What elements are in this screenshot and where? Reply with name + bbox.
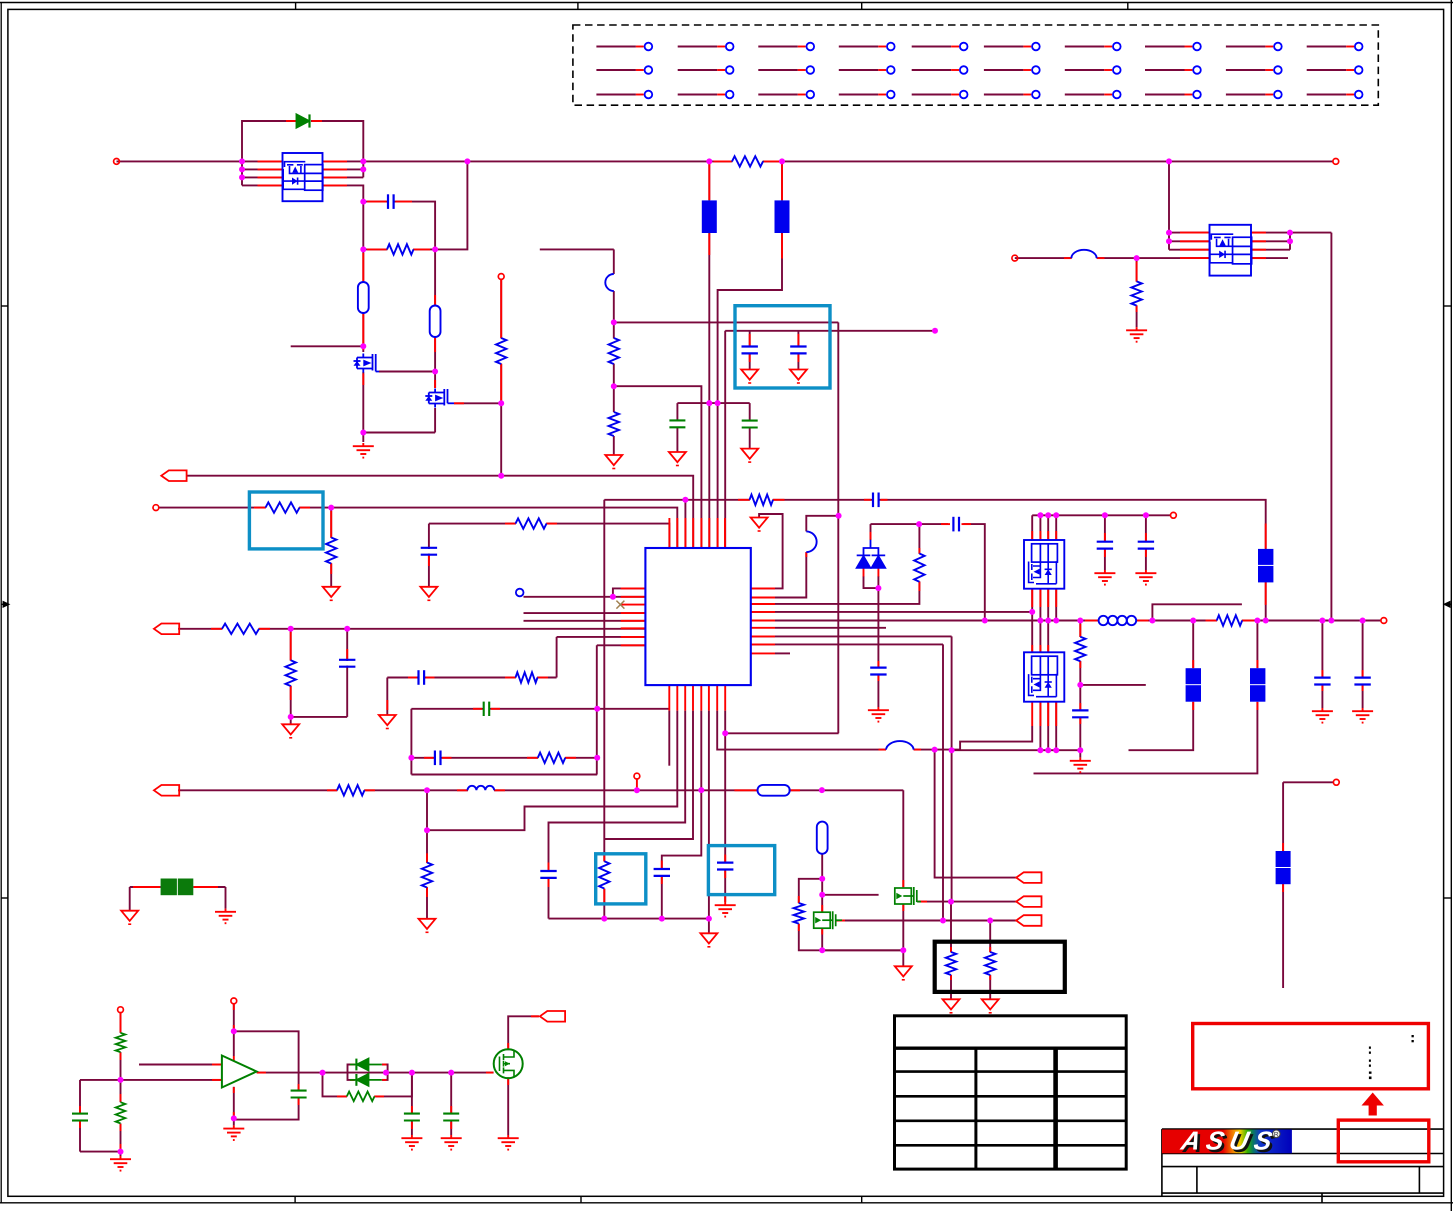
wire Q1 drain y368.3 xyxy=(379,371,435,373)
pin stub x661 cap stubs xyxy=(661,861,663,869)
junction node J50 xyxy=(987,918,993,924)
wire left RC loop x80 xyxy=(80,1079,121,1081)
pin stub cap y499 stub r xyxy=(881,499,888,501)
ground bars PG14 xyxy=(450,1135,452,1138)
junction node J13 xyxy=(498,400,504,406)
junction node J79 xyxy=(1287,238,1293,244)
pin stub pairA stubs xyxy=(1192,660,1194,668)
ground bars PG3 xyxy=(1145,570,1147,573)
fuse F1 oval x363 xyxy=(358,282,369,313)
red callout box upper xyxy=(1193,1024,1429,1089)
capacitor C4 y677 xyxy=(417,670,419,685)
resistor R9 y790 xyxy=(337,785,364,795)
no-connect stub row1 col8 xyxy=(1145,43,1201,51)
pin stub pill y790 stub r xyxy=(790,789,800,791)
pin stub pack2 bottom stubs4 xyxy=(1055,702,1057,726)
resistor R6 y628 xyxy=(222,624,259,634)
pin stub opamp bot stub xyxy=(233,1087,235,1093)
pin stub right pack rows right red3 xyxy=(1252,249,1266,251)
junction node J68 xyxy=(1328,618,1334,624)
no-connect stub row2 col6 xyxy=(984,66,1040,74)
junction node J74 xyxy=(1102,512,1108,518)
pin stub x120 stub5 xyxy=(120,1144,122,1152)
ground bars PG4 xyxy=(877,707,879,710)
pin stub x411 cap stub b xyxy=(411,1122,413,1129)
resistor R15 x331 xyxy=(326,538,336,564)
capacitor C1 y201 xyxy=(387,194,389,209)
pin stub x798 res stub b xyxy=(798,924,800,931)
junction node J82 xyxy=(118,1077,124,1083)
pin stub res y628 stubs xyxy=(211,628,222,630)
junction node J59 xyxy=(982,618,988,624)
resistor R20 x1080 xyxy=(1075,637,1085,661)
pin stub oval F1 stubs xyxy=(362,253,364,281)
capacitor C3 y524 xyxy=(952,517,954,532)
pin stub res y1096 stubs xyxy=(337,1095,347,1097)
pin stub coil y749 stubs xyxy=(879,749,887,751)
pin stub res y677 stub r xyxy=(538,677,549,679)
pin stub x1362 cap stubs xyxy=(1362,670,1364,677)
wire IC pin B4 staircase to box resistor xyxy=(604,711,693,839)
pin stub box A caps red xyxy=(750,334,799,362)
pin stub diode D1 stub r xyxy=(312,120,323,122)
transistor pack U1 pack left xyxy=(283,153,323,201)
pin stub x1283 stub b xyxy=(1282,884,1284,892)
pin stub x604 res stub b xyxy=(603,889,605,903)
junction node J75 xyxy=(1143,512,1149,518)
no-connect stub row3 col2 xyxy=(678,91,734,99)
pin stub Q4 src stub xyxy=(918,901,927,903)
wire y716.9 tie xyxy=(291,716,348,718)
net flag F4 xyxy=(1016,872,1041,883)
wire x604 long column into box R xyxy=(603,500,605,862)
no-connect stub row1 col1 xyxy=(596,43,652,51)
junction node J84 xyxy=(231,1028,237,1034)
capacitor C22 green x298 xyxy=(291,1091,307,1098)
wire y684.9 stub xyxy=(1080,684,1146,686)
note box A caps xyxy=(735,306,830,388)
pin stub diode D1 stubs xyxy=(286,120,297,122)
border zone ticks top xyxy=(296,3,1128,10)
junction node J67 xyxy=(1319,618,1325,624)
junction node J76 xyxy=(1166,230,1172,236)
wire cap column x451 xyxy=(450,1073,452,1114)
diode D4 green lower xyxy=(350,1074,382,1086)
IC U3 left pin stubs xyxy=(621,587,646,589)
pin stub res y677 stubs xyxy=(505,677,516,679)
pin stub x878 cap stub b xyxy=(877,675,879,681)
pin stub x501 stub mid xyxy=(500,364,502,403)
junction node J86 xyxy=(320,1070,326,1076)
pin stub x80 cap stubs xyxy=(79,1106,81,1113)
component wire masks xyxy=(387,248,413,251)
junction node J72 xyxy=(1045,512,1051,518)
pin stub res y507 stubs xyxy=(254,507,266,509)
fuse FB4a x1193 xyxy=(1186,668,1201,684)
no-connect stub row2 col5 xyxy=(912,66,968,74)
terminal circle T1 xyxy=(114,159,120,165)
diode D1 green xyxy=(297,114,310,127)
resistor R21 x1136 xyxy=(1131,281,1141,305)
capacitor C5 y757 xyxy=(434,751,436,766)
wire diode loop left vertical xyxy=(242,121,297,185)
junction node J23 xyxy=(932,328,938,334)
wire main rail y620.5 xyxy=(751,620,1099,622)
wire pack column2 x1040 xyxy=(1039,589,1041,653)
wire bottom tie row y918.6 xyxy=(549,918,709,920)
junction node J89 xyxy=(448,1070,454,1076)
transistor Q6 green mosfet circle xyxy=(494,1049,523,1078)
resistor R7 y677 xyxy=(516,672,538,682)
pin stub opamp out stub xyxy=(257,1072,266,1074)
wire pack U1 row4 to cap node xyxy=(323,185,364,249)
ground bars PG12 xyxy=(233,1125,235,1128)
pin stub mosfet Q1 stubs xyxy=(362,374,364,386)
pin stub x347 cap stubs xyxy=(346,649,348,660)
pin stub box res stub b xyxy=(950,975,952,980)
no-connect stub row3 col3 xyxy=(758,91,814,99)
wire branch y733.3 to x838 column xyxy=(725,732,838,734)
wire diode pair frame xyxy=(348,1065,355,1073)
junction node J15 xyxy=(611,319,617,325)
resistor R11 rail xyxy=(1217,615,1242,625)
junction node J63 xyxy=(1149,618,1155,624)
capacitor C15 x1104 xyxy=(1097,541,1113,543)
wire x822 column through Q3 xyxy=(821,854,823,912)
wire row y774.5 xyxy=(411,774,597,776)
wire U2 right rows xyxy=(1251,232,1331,234)
wire Q3 gate row y894.8 xyxy=(822,894,878,896)
pin stub res y757 stubs xyxy=(527,757,538,759)
ground triangle G8 xyxy=(700,933,717,943)
pin stub cap x429 stubs xyxy=(428,555,430,566)
pin stub arc y258 stubs xyxy=(1064,257,1071,259)
pin stub right pack rows right red2 xyxy=(1252,240,1266,242)
resistor R19 x919 xyxy=(914,554,924,582)
pin stub Q3 stubs xyxy=(821,905,823,912)
resistor R12 x501 xyxy=(496,338,506,364)
terminal circle T5 xyxy=(1171,512,1177,518)
junction node J35 xyxy=(424,787,430,793)
pin stub x604 res stubs xyxy=(603,855,605,862)
wire rect pair B column xyxy=(1256,621,1258,669)
wire opamp supply column x233 xyxy=(233,1004,235,1056)
no-connect stub row3 col10 xyxy=(1307,91,1363,99)
junction node J2 xyxy=(239,166,245,172)
junction node J8 xyxy=(360,343,366,349)
wire x798 resistor branch xyxy=(799,879,822,904)
pin stub opamp gnd stub xyxy=(233,1112,235,1118)
pin stub res y523 stubs xyxy=(505,523,516,525)
no-connect circle pin L2 xyxy=(516,589,524,597)
pin stub right pack rows right red xyxy=(1252,232,1266,234)
fuse FB6a x1283 xyxy=(1276,851,1291,867)
capacitor C2 y499 xyxy=(872,493,874,508)
pin stub res y523 stub r xyxy=(547,523,558,525)
pin stub x501 stub top xyxy=(500,280,502,339)
red callout box lower xyxy=(1338,1120,1429,1162)
junction node J53 xyxy=(1037,747,1043,753)
wire x347 cap column xyxy=(346,629,348,717)
pin stub dual diode stub2 xyxy=(877,568,879,577)
transistor Q2 mosfet x435 xyxy=(425,389,454,408)
fuse F3 oval x822 xyxy=(817,822,828,854)
pin stub coil y790 stubs xyxy=(457,789,468,791)
junction node J42 xyxy=(706,916,712,922)
pin stub pack rows red right4 xyxy=(324,184,348,186)
junction node J26 xyxy=(916,521,922,527)
junction node J52 xyxy=(949,747,955,753)
pin stub x80 cap stub b xyxy=(79,1121,81,1128)
wire RC row y677.5 xyxy=(387,677,556,679)
border zone tick left xyxy=(2,602,9,607)
ground bars PG15 xyxy=(507,1135,509,1138)
transistor pack U5 pack low-side xyxy=(1024,652,1064,701)
capacitor C10 x548 xyxy=(540,870,556,872)
pin stub pack1 top stubs3 xyxy=(1047,531,1049,540)
resistor R8 y757 xyxy=(538,753,565,763)
junction node J39 xyxy=(819,787,825,793)
pin stub res R1 stub r xyxy=(414,248,431,250)
wire Q6 drain to flag xyxy=(508,1016,539,1050)
wire x429 cap to ground xyxy=(428,524,430,586)
pin stub cap y499 stubs xyxy=(864,499,871,501)
pin stub cap y757 stub r xyxy=(442,757,452,759)
resistor R17 boxR xyxy=(599,861,609,888)
ground triangle G3 xyxy=(741,449,758,459)
pin stub x1080 res stub b xyxy=(1079,661,1081,668)
junction node J36 xyxy=(424,827,430,833)
no-connect stub row3 col4 xyxy=(839,91,895,99)
pin stub cap y677 stubs xyxy=(408,677,417,679)
pin stub rail pins left pack xyxy=(258,160,282,162)
net flag F1 xyxy=(161,470,186,481)
pin stub x120 stub3 xyxy=(120,1094,122,1102)
pin stub res y628 stub r xyxy=(259,628,270,630)
wire IC pin B6 column to ground xyxy=(708,711,710,934)
pin stub cap y757 stubs xyxy=(424,757,434,759)
pin stub rail coil stubs xyxy=(1085,620,1098,622)
note box C resistor xyxy=(596,854,646,904)
net flag F3 xyxy=(154,785,179,796)
no-connect stub row3 col8 xyxy=(1145,91,1201,99)
junction node J88 xyxy=(409,1070,415,1076)
capacitor C17 x1322 xyxy=(1314,676,1330,678)
pin stub fuse x782 stub bot xyxy=(781,233,783,258)
pin stub pack2 bottom stubs2 xyxy=(1039,702,1041,726)
no-connect stub row1 col4 xyxy=(839,43,895,51)
capacitor C16 x1145 xyxy=(1138,541,1154,543)
capacitor C13 x878 xyxy=(870,666,886,668)
wire net SENSE y475.7 to IC pin T4 xyxy=(186,476,693,548)
wire U2 row4 inductor line y258.1 xyxy=(1015,257,1072,259)
fuse FB5b x1257 xyxy=(1250,685,1265,702)
wire right pack U2 feed column x1169 xyxy=(1168,161,1170,249)
fuse FB1 x709 xyxy=(702,200,717,233)
pin stub green fuse stub r xyxy=(194,886,218,888)
ground triangle G13 xyxy=(121,911,138,921)
terminal circle T11 y507 xyxy=(153,505,159,511)
terminal circle T3 xyxy=(634,773,640,779)
resistor R10 y499 xyxy=(750,495,774,505)
wire IC pin T3 stub xyxy=(684,500,686,548)
no-connect stub row2 col9 xyxy=(1226,66,1282,74)
wire IC pin B2 staircase to x427 xyxy=(427,711,677,831)
ground triangle G10 xyxy=(895,966,912,976)
capacitor C19 green x677 xyxy=(669,420,685,427)
wire Q4 source row y901.6 to flag xyxy=(918,901,1017,903)
ground bars PG7 xyxy=(1321,708,1323,711)
pin stub opamp in stub2 xyxy=(212,1079,222,1081)
junction node J7 xyxy=(360,246,366,252)
wire y604.3 jog over rail xyxy=(1152,604,1242,620)
pin stub Q6 src stub xyxy=(507,1078,509,1086)
pin stub diode pair stub4 xyxy=(382,1079,386,1081)
pin stub mosfet Q2 src stub xyxy=(454,402,464,404)
wire U2 left rows xyxy=(1169,232,1210,234)
wire x1265 rect pair to main rail xyxy=(1265,582,1267,620)
pin stub x878 cap stubs xyxy=(877,661,879,667)
pin stub x1145 cap stubs xyxy=(1145,533,1147,541)
resistor R4 y523 xyxy=(516,518,547,528)
pin stub x1104 cap stub b xyxy=(1104,549,1106,557)
pin stub opamp pwr stub xyxy=(233,1004,235,1010)
pin stub x1322 cap stub b xyxy=(1321,685,1323,691)
junction node J34 xyxy=(408,755,414,761)
wire x597 column xyxy=(596,645,598,774)
fuse F5 green pair xyxy=(161,879,177,896)
pin stub Q6 gate stub xyxy=(486,1072,493,1074)
junction node J71 xyxy=(1037,512,1043,518)
wire arc chain to IC pin R2 xyxy=(806,516,838,532)
wire x838 long column xyxy=(837,322,839,733)
junction node J40 xyxy=(601,916,607,922)
junction node J12 xyxy=(464,158,470,164)
pin stub Q3 src stub xyxy=(836,920,845,922)
wire Q4 drain column x903 xyxy=(902,904,904,966)
wire pack column3 x1048 xyxy=(1047,589,1049,653)
junction node J54 xyxy=(1045,747,1051,753)
capacitor C7 x798 xyxy=(790,345,806,347)
junction node J66 xyxy=(1263,618,1269,624)
wire IC pin B1 stub xyxy=(668,711,670,766)
wire cap column x1145 xyxy=(1145,515,1147,542)
pin stub cap y677 stub r xyxy=(426,677,435,679)
wire x427 divider column xyxy=(426,790,428,863)
diode D3 green upper xyxy=(350,1059,382,1071)
fuse F2 oval x435 xyxy=(430,306,441,338)
capacitor C20 green x749 xyxy=(742,421,758,428)
junction node J85 xyxy=(231,1115,237,1121)
wire IC pin R6 row stub xyxy=(775,627,886,629)
ground triangle G9 xyxy=(751,518,768,528)
ground triangle G2 xyxy=(669,452,686,462)
pin stub x387 stub xyxy=(386,700,388,710)
wire net VREF y499.8 long rail xyxy=(604,500,1265,549)
inductor L2 y790 xyxy=(468,786,495,790)
inductor L3 arc x613 xyxy=(605,274,614,291)
wire IC pin B7 row y749.6 with coil gap xyxy=(717,711,886,750)
junction node J11 xyxy=(432,369,438,375)
no-connect stub row1 col3 xyxy=(758,43,814,51)
wire x934 column to flag row xyxy=(935,750,1017,878)
junction node J80 xyxy=(1134,255,1140,261)
IC U3 main controller xyxy=(645,548,750,685)
pin stub x725 cap stubs xyxy=(724,855,726,863)
junction node J18 xyxy=(779,158,785,164)
resistor R25 green x120 upper xyxy=(116,1033,126,1052)
pin stub green cap y708 stub r xyxy=(491,708,500,710)
ground triangle G14 xyxy=(419,919,436,929)
junction node J70 xyxy=(1029,609,1035,615)
wire IC pin L8 row xyxy=(597,644,646,646)
wire green cap rail y403.1 xyxy=(677,402,749,404)
pin stub rail pins right pack xyxy=(324,160,348,162)
pin stub oval F2 stubs xyxy=(434,295,436,305)
wire x435 column xyxy=(434,249,436,432)
junction node J30 xyxy=(288,714,294,720)
pin stub x1322 cap stubs xyxy=(1321,670,1323,677)
wire net FB y628.8 row to IC pin L6 xyxy=(178,628,645,630)
resistor R3 y161 xyxy=(732,156,763,166)
wire IC pin R9 row stub xyxy=(775,652,790,654)
pin stub right pack rows left red3 xyxy=(1180,249,1209,251)
pin stub Q4 stub b xyxy=(902,905,904,911)
fuse FB6b x1283 xyxy=(1276,868,1291,884)
ground bars PG6 xyxy=(724,902,726,905)
pin stub pack1 bottom stubs xyxy=(1031,589,1033,607)
no-connect stub row1 col7 xyxy=(1065,43,1121,51)
pin stub rail resistor stubs xyxy=(714,160,732,162)
ground triangle G4 xyxy=(323,587,340,597)
pin stub diode pair stub2 xyxy=(382,1064,386,1066)
pin stub res R1 stubs xyxy=(367,248,387,250)
no-connect stub row3 col9 xyxy=(1226,91,1282,99)
pin stub x411 cap stubs xyxy=(411,1106,413,1113)
junction node J16 xyxy=(611,383,617,389)
pin stub diode pair stub3 xyxy=(350,1079,355,1081)
pin stub x1283 stubs xyxy=(1282,843,1284,851)
wire bottom tie y950.3 xyxy=(822,949,903,951)
transistor pack U2 pack right xyxy=(1210,225,1252,276)
wire bottom tie row y750.2 xyxy=(952,749,1081,751)
wire IC pin B5 staircase to cap x661 xyxy=(662,711,702,869)
capacitor C11 x661 xyxy=(654,868,670,870)
junction node J78 xyxy=(1287,230,1293,236)
junction node J44 xyxy=(932,747,938,753)
junction node J21 xyxy=(715,400,721,406)
wire pack column4 x1056 xyxy=(1055,589,1057,621)
junction node J62 xyxy=(1053,618,1059,624)
pin stub oval F1 stub b xyxy=(362,314,364,350)
border outer left line xyxy=(0,3,2,1203)
wire pack U1 left pin rows xyxy=(242,168,283,170)
inductor L1 rail coil xyxy=(1099,616,1108,625)
wire net y523.6 to IC pin T1 xyxy=(429,524,670,548)
wire resistor loop y1096.4 xyxy=(323,1073,348,1097)
pin stub pairB stubs xyxy=(1256,660,1258,668)
pin stub rail res stub r xyxy=(1242,620,1254,622)
wire x387 to ground xyxy=(386,678,388,716)
junction node J5 xyxy=(360,166,366,172)
ground triangle G11 xyxy=(943,999,960,1009)
pin stub x298 cap stub b xyxy=(298,1099,300,1105)
pin stub x1080 cap stubs xyxy=(1079,703,1081,710)
wire green fuse row y887 xyxy=(130,886,161,888)
pin stub x427 res stubs xyxy=(426,853,428,862)
ground bars PG11 xyxy=(120,1156,122,1159)
pin stub x298 cap stubs xyxy=(298,1084,300,1090)
